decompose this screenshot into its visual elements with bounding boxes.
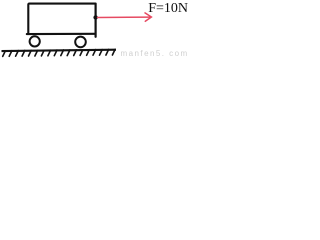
- left wheel: [30, 36, 40, 46]
- ground line: [2, 50, 117, 51]
- force application dot: [93, 15, 97, 19]
- svg-text:F=10N: F=10N: [148, 1, 188, 16]
- ground hatching: [3, 49, 115, 56]
- svg-text:manfen5. com: manfen5. com: [121, 49, 189, 58]
- force arrow F (red): [98, 13, 152, 21]
- cart body rectangle: [27, 4, 96, 37]
- right wheel: [75, 37, 86, 48]
